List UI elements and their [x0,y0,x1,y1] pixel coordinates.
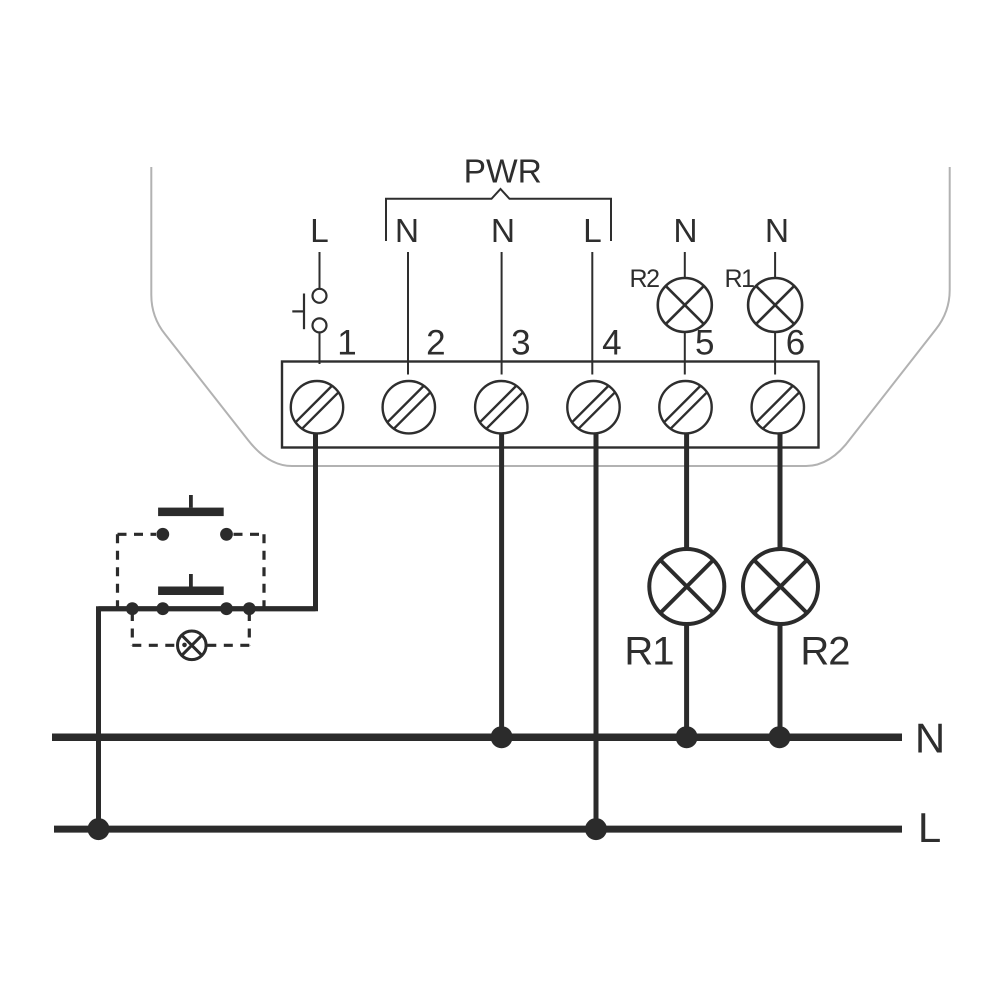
dash dot inside backlight lamp [182,643,187,648]
wire lamp R2 to terminal 5 [684,332,686,375]
wire L to switch S1 [319,252,321,289]
wire N to terminal 3 [501,252,503,375]
lamp R2 (top symbol) [658,278,712,332]
L bus [54,826,902,833]
contact dot SB2 left [156,602,169,615]
terminal 5 [659,381,711,433]
lamp R2 (load) [743,549,818,624]
wire terminal 1 to switch line [99,434,316,829]
junction lamp R2 / N bus [769,726,791,748]
contact dot SB1 right [220,528,233,541]
contact dot SB1 left [156,528,169,541]
svg-text:L: L [583,213,602,250]
svg-text:3: 3 [511,324,530,363]
junction dot (lamp tap left) [126,602,139,615]
svg-text:N: N [673,213,697,250]
wire N to lamp R2 (top) [684,252,686,278]
wire L to terminal 4 [591,252,593,375]
wire lamp R2 to N bus [778,623,783,737]
lamp R1 (load) [649,549,724,624]
junction lamp R1 / N bus [676,726,698,748]
switch S1 (push contact at terminal 1) [292,289,326,333]
terminal 3 [475,381,527,433]
terminal 6 [752,381,804,433]
svg-text:5: 5 [695,324,714,363]
wire lamp R1 to terminal 6 [774,332,776,375]
terminal block [282,362,819,448]
N bus [52,733,902,741]
terminal 4 [567,381,619,433]
wire lamp R1 to N bus [684,623,689,737]
junction dot (lamp tap right) [243,602,256,615]
junction switch / L bus [88,818,110,840]
junction terminal 3 / N bus [491,726,513,748]
svg-text:L: L [918,804,941,851]
svg-text:6: 6 [786,324,805,363]
dashed wire to backlight lamp left [132,612,177,645]
svg-text:4: 4 [602,324,621,363]
junction terminal 4 / L bus [585,818,607,840]
svg-text:N: N [395,213,419,250]
wire terminal 5 to lamp R1 [684,434,689,550]
wire terminal 4 to L bus [594,434,599,829]
terminal 2 [383,381,435,433]
svg-text:R1: R1 [725,265,755,293]
switch line wire [99,606,316,611]
contact dot SB2 right [220,602,233,615]
wire terminal 6 to lamp R2 [778,434,783,550]
terminal 1 [291,381,343,433]
backlight lamp [178,631,207,660]
svg-text:R2: R2 [630,265,660,293]
svg-text:L: L [310,213,329,250]
svg-text:PWR: PWR [464,154,542,191]
device outline [151,167,949,466]
push button SB2 (lower) [158,587,224,596]
svg-text:R1: R1 [624,630,673,674]
wire N to lamp R1 (top) [774,252,776,278]
PWR bracket [386,189,611,241]
wire terminal 3 to N bus [499,434,504,737]
svg-text:N: N [491,213,515,250]
push button SB1 (upper) [158,508,224,516]
svg-text:N: N [765,213,789,250]
svg-text:2: 2 [426,324,445,363]
dashed wire to backlight lamp right [207,612,250,645]
wall switch housing (dashed box) [118,534,265,607]
svg-text:1: 1 [337,324,356,363]
lamp R1 (top symbol) [748,278,802,332]
svg-text:R2: R2 [800,630,849,674]
svg-text:N: N [915,715,945,762]
wire switch S1 to terminal 1 [319,333,321,364]
wire N to terminal 2 [407,252,409,375]
